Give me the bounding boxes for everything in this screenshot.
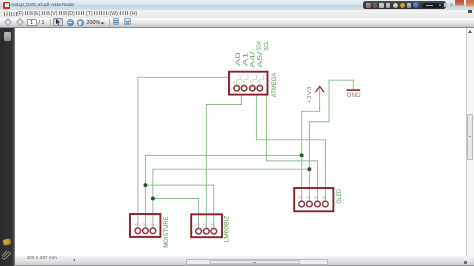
svg-text:A0: A0 — [235, 52, 242, 66]
supply symbol +3V3 — [307, 86, 324, 104]
wire horizontal y=185.1 branch to LM60BIZ pin3 — [145, 184, 213, 186]
wire vertical x=317.5 — [317, 161, 319, 201]
wire horizontal y=139.8 — [256, 139, 325, 141]
faint min/max window marks — [444, 3, 447, 7]
svg-text:MOISTURE: MOISTURE — [163, 216, 170, 248]
wire net A4/SDA: ATMEGA to OLED pin 4 — [256, 95, 325, 201]
svg-text:A0: A0 — [135, 222, 139, 226]
wire stub from ATMEGA — [240, 95, 242, 105]
svg-text:1: 1 — [233, 80, 235, 84]
svg-text:A4/: A4/ — [249, 52, 256, 68]
wire net A1: ATMEGA to LM60BIZ pin 2 — [206, 95, 241, 228]
tiny pin labels — [298, 196, 326, 200]
toolbar icon A — [113, 18, 120, 25]
wire vertical x=145.4 to MOISTURE pin2 — [144, 155, 146, 227]
svg-text:SCL: SCL — [264, 41, 270, 51]
wire vertical x=198.6 to LM60BIZ pin1 — [198, 199, 200, 228]
tiny pin labels — [195, 223, 215, 227]
svg-text:A5/: A5/ — [257, 52, 264, 68]
svg-text:OLED: OLED — [336, 189, 343, 204]
wire vertical x=213.8 to LM60BIZ pin3 — [213, 185, 215, 228]
sidebar paperclip icon — [2, 249, 11, 260]
red blocks top-right — [455, 0, 464, 6]
svg-text:ATMEGA: ATMEGA — [271, 72, 278, 97]
svg-text:GN: GN — [150, 222, 154, 226]
wire vertical x=152.9 to MOISTURE pin3 — [152, 169, 154, 227]
wire vertical x=266.4 — [265, 95, 267, 161]
scrollbar up arrow — [468, 30, 472, 33]
wire horizontal y=160.9 — [266, 160, 317, 162]
ground symbol GND — [347, 90, 361, 99]
toolbar — [0, 18, 474, 29]
zoom out — [67, 19, 74, 26]
wire horizontal y=77.3 — [138, 76, 229, 78]
svg-text:VS: VS — [203, 223, 207, 227]
pin pads — [234, 86, 262, 91]
pdf app icon — [3, 2, 10, 9]
svg-text:GN: GN — [195, 223, 199, 227]
svg-text:+3V3: +3V3 — [307, 86, 313, 104]
wire vertical x=301.7 to OLED pin1 — [301, 111, 303, 200]
svg-text:2: 2 — [241, 80, 243, 84]
pin numbers — [233, 80, 259, 84]
zoom level — [87, 20, 101, 26]
svg-text:3V: 3V — [142, 222, 146, 226]
svg-text:3: 3 — [249, 80, 251, 84]
wire horizontal y=111.3 — [302, 110, 320, 112]
separator — [50, 19, 51, 26]
wire below +3V3 arrow — [319, 89, 321, 112]
svg-text:A1: A1 — [242, 52, 249, 66]
svg-text:LM60BIZ: LM60BIZ — [224, 215, 231, 242]
select tool (pressed) — [53, 18, 63, 26]
toolbar icon B — [124, 18, 132, 25]
wire vertical x=325.4 — [324, 140, 326, 201]
wire horizontal y=104.5 — [206, 104, 241, 106]
svg-text:GN: GN — [298, 196, 302, 200]
wire horizontal y=121.9 — [309, 121, 329, 123]
vertical scrollbar — [465, 28, 468, 256]
junction at MOISTURE pin3 / LM60BIZ branch — [151, 197, 155, 201]
separator — [109, 19, 110, 26]
wire vertical x=329 — [328, 80, 330, 122]
nav buttons — [4, 18, 12, 26]
connector J1 ATMEGA — [229, 72, 268, 95]
junction at +3V3/MOISTURE branch — [300, 154, 304, 158]
title bar — [0, 0, 474, 10]
svg-text:GND: GND — [347, 92, 361, 99]
wire horizontal y=169.2 branch to MOISTURE pin3 — [153, 168, 310, 170]
menu bar — [0, 10, 474, 18]
svg-text:VO: VO — [211, 223, 216, 227]
svg-text:SC: SC — [314, 196, 318, 200]
wire net A5/SCL: ATMEGA to OLED pin 3 — [266, 95, 317, 201]
resize grip dot — [464, 261, 467, 263]
page number box — [27, 19, 37, 26]
wire vertical x=256.4 — [255, 95, 257, 140]
wire horizontal y=198.5 branch to LM60BIZ pin1 — [153, 198, 199, 200]
sidebar yellow icon — [2, 238, 11, 246]
connector MOISTURE — [130, 214, 160, 237]
wire net A0: ATMEGA pin A0 to MOISTURE pin 1 — [138, 77, 229, 227]
connector OLED — [294, 188, 333, 211]
wire net GND: GND symbol to OLED pin2, MOISTURE pin3, LM60BIZ pin1 — [153, 80, 353, 228]
wire horizontal y=80.2 — [329, 79, 353, 81]
wire vertical x=206.3 — [205, 105, 207, 228]
horizontal scrollbar — [186, 259, 328, 265]
menu items (kana simulated with stroke stripes; Latin letters real) — [4, 12, 17, 16]
svg-text:4: 4 — [257, 80, 259, 84]
left dark sidebar — [0, 28, 15, 266]
wire horizontal y=155.4 branch to MOISTURE — [145, 154, 301, 156]
wire vertical x=137.9 — [137, 77, 139, 227]
zoom in — [77, 19, 84, 26]
overlay dock with app icons (top right) — [363, 1, 446, 9]
tiny pin labels — [135, 222, 155, 226]
svg-text:SDA: SDA — [256, 41, 262, 51]
wire net +3V3: supply to OLED pin1, MOISTURE pin2, LM60BIZ pin3 — [145, 89, 319, 228]
junction at GND/MOISTURE branch — [308, 167, 312, 171]
svg-text:VC: VC — [306, 196, 310, 200]
wire vertical to GND bar — [352, 80, 354, 89]
window title — [11, 2, 74, 7]
status bar — [15, 256, 474, 266]
sidebar page icon — [4, 32, 11, 41]
junction at MOISTURE pin2 / LM60BIZ branch — [144, 183, 148, 187]
pin stubs (green hooks) — [237, 75, 264, 85]
wire vertical x=309.4 to OLED pin2 — [308, 122, 310, 201]
connector LM60BIZ — [191, 214, 222, 237]
svg-text:SD: SD — [322, 196, 326, 200]
